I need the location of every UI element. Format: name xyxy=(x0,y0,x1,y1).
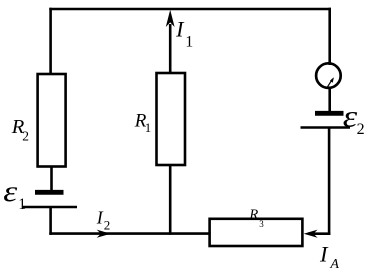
label E1 xyxy=(3,175,26,213)
svg-text:I: I xyxy=(319,241,329,266)
arrow I2 on bottom wire xyxy=(97,230,111,238)
svg-text:2: 2 xyxy=(22,128,29,143)
label R1 xyxy=(134,110,151,134)
svg-text:1: 1 xyxy=(145,121,151,135)
battery E2 long thin plate xyxy=(301,126,351,128)
resistor R1 xyxy=(157,73,186,165)
svg-text:3: 3 xyxy=(259,219,264,229)
arrow IA into R3 xyxy=(304,230,318,238)
wire battery E2 down right side xyxy=(328,128,331,235)
label I2 xyxy=(96,208,111,233)
label IA xyxy=(319,241,339,272)
svg-text:R: R xyxy=(248,207,258,223)
svg-text:2: 2 xyxy=(104,218,111,233)
meter (galvanometer) circle xyxy=(316,63,341,88)
svg-text:I: I xyxy=(96,208,104,228)
label E2 xyxy=(343,100,365,138)
wire top horizontal xyxy=(49,8,331,11)
svg-text:I: I xyxy=(175,16,185,41)
resistor R2 xyxy=(38,74,66,167)
battery E2 short thick plate xyxy=(315,111,344,116)
meter needle arrow xyxy=(327,77,334,88)
wire R1 bottom xyxy=(169,165,172,235)
wire meter to battery E2 xyxy=(328,87,331,113)
resistor R3 xyxy=(210,219,303,246)
wire bottom right horizontal into R3 xyxy=(308,232,330,235)
wire left vertical xyxy=(49,8,52,75)
label I1 xyxy=(175,16,193,50)
wire right vertical top xyxy=(328,8,331,65)
svg-text:1: 1 xyxy=(185,34,193,51)
label R2 xyxy=(11,116,29,143)
wire bottom horizontal left xyxy=(49,232,210,235)
wire battery E1 to bottom xyxy=(49,207,52,235)
svg-text:1: 1 xyxy=(18,196,26,213)
svg-text:2: 2 xyxy=(357,121,365,138)
wire R2 to battery E1 xyxy=(50,166,53,192)
wire R1 top with arrow I1 xyxy=(166,10,175,73)
battery E1 long thin plate xyxy=(22,206,77,208)
label R3 xyxy=(248,207,264,229)
svg-text:A: A xyxy=(329,257,339,272)
battery E1 short thick plate xyxy=(35,190,64,195)
svg-text:ε: ε xyxy=(3,175,17,208)
